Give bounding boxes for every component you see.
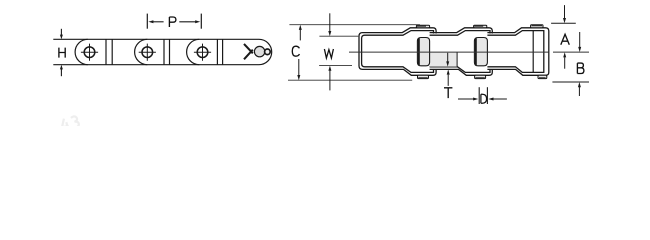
barrel 2 left wall double line: [475, 38, 477, 65]
dimension W top extension line: [319, 35, 358, 37]
pin tab 1 bottom: [418, 75, 429, 78]
dimension A outside arrow (top): [564, 5, 566, 18]
divider lines pair 1: [105, 39, 107, 64]
barrel 2 (gray): [474, 38, 487, 66]
dimension B up arrow at centerline: [564, 57, 566, 68]
dimension D extension lines: [478, 87, 480, 104]
barrel 3 walls at right end: [532, 31, 534, 73]
gray shading inside link 2 lower strap: [430, 52, 457, 67]
pin circle 3 with crosshair: [194, 44, 211, 61]
label P: [169, 17, 176, 27]
pin end small circle: [265, 49, 271, 55]
dimension D arrows (outside): [458, 98, 473, 100]
cotter pin X: [244, 44, 253, 59]
wire bottom edge of chain bar (H extension): [53, 64, 259, 66]
link 1 sidebar ring: [359, 28, 436, 76]
label C: [292, 46, 299, 56]
pin circle 2 with crosshair: [139, 44, 156, 61]
cotter pin head circle (gray): [254, 46, 264, 56]
pin circle 1 with crosshair: [81, 44, 98, 61]
dimension B bottom extension line: [552, 81, 589, 83]
pin tab 2 bottom: [475, 75, 486, 78]
link 3 sidebar silhouette: [487, 28, 548, 76]
faint watermark: [60, 115, 79, 130]
wire top edge of chain bar (H extension): [53, 38, 259, 40]
barrel arc link 1: [75, 39, 88, 64]
label W: [324, 49, 333, 58]
label T: [444, 88, 452, 98]
label B: [577, 63, 584, 73]
link 3 strap lines: [487, 28, 548, 76]
barrel arc link 2: [135, 39, 148, 64]
divider lines pair 3: [216, 39, 218, 64]
pin head 3 top: [531, 25, 543, 28]
dimension C bottom extension line: [288, 79, 412, 81]
dimension W bottom extension line: [319, 65, 352, 67]
dimension T up arrow: [447, 75, 449, 86]
pin tab 3 bottom: [538, 75, 547, 78]
pin head 1 top: [416, 25, 429, 28]
barrel arc link 3: [187, 39, 200, 64]
label D: [481, 94, 487, 103]
dimension A top extension line: [551, 22, 576, 24]
label A: [561, 34, 570, 44]
dimension T down arrow: [447, 53, 449, 62]
dimension W arrows (outside): [329, 13, 331, 31]
link 2 strap lines: [430, 28, 493, 76]
centerline (pitch line): [349, 51, 549, 53]
right stadium end arc: [259, 39, 272, 64]
dimension C arrows: [299, 30, 301, 41]
dimension P: [146, 14, 148, 29]
dimension A inside arrow (down to centerline): [579, 32, 581, 47]
label H: [59, 48, 65, 58]
barrel 1 (gray): [417, 38, 429, 66]
divider lines pair 2: [163, 39, 165, 64]
dimension B outside arrow (bottom): [578, 87, 580, 96]
dimension H arrows: [60, 29, 62, 76]
barrel 1 left wall double line: [418, 38, 420, 65]
pin head 2 top: [474, 25, 487, 28]
dimension C top extension line: [289, 24, 420, 26]
link 2 sidebar silhouette: [430, 28, 493, 76]
